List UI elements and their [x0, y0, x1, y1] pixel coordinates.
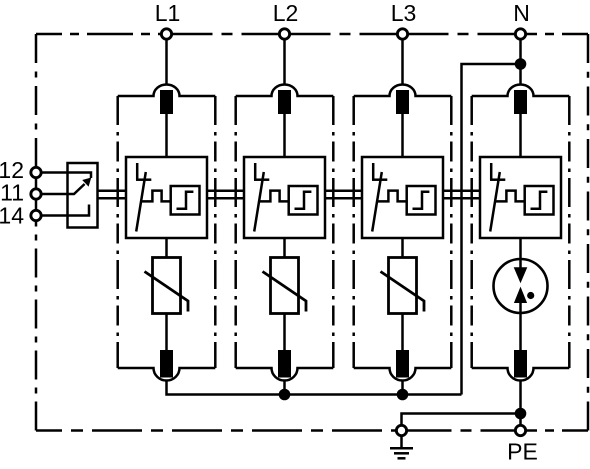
ground symbol — [390, 436, 413, 459]
wire terminal L2 to disconnector — [283, 39, 286, 85]
wire varistor L3 to bottom disconnector — [401, 314, 404, 351]
wire ground terminal to PE wire — [402, 414, 521, 426]
wire varistor L2 to bottom disconnector — [283, 314, 286, 351]
svg-text:L2: L2 — [273, 0, 299, 26]
wire L1 bottom to varistor bus — [167, 381, 462, 395]
bus link segment 1 (double line) — [98, 191, 127, 199]
bottom disconnector L3 — [396, 350, 409, 378]
junction N top — [515, 58, 527, 70]
terminal ground — [396, 425, 406, 435]
module L1 enclosure outline — [118, 85, 216, 381]
disconnection device with monitoring, path L1 — [126, 157, 207, 238]
junction L2 on varistor bus — [279, 389, 291, 401]
wire varistor L1 to bottom disconnector — [165, 314, 168, 351]
svg-text:PE: PE — [507, 439, 538, 465]
varistor L1 — [145, 258, 189, 314]
wire switch box to varistor L3 — [401, 238, 404, 258]
varistor L3 — [381, 258, 425, 314]
spark gap N-PE (gas discharge) — [494, 259, 548, 313]
terminal 14 — [31, 210, 41, 220]
thermal disconnector L2 (top) — [278, 90, 291, 114]
module L3 enclosure outline — [354, 85, 452, 381]
terminal L2 — [279, 29, 289, 39]
terminal PE — [515, 425, 525, 435]
wire N bottom to PE terminal — [519, 381, 522, 426]
thermal disconnector L3 (top) — [396, 90, 409, 114]
terminal N — [515, 29, 525, 39]
module L2 enclosure outline — [236, 85, 334, 381]
varistor L2 — [263, 258, 307, 314]
remote signalling changeover contact FM — [41, 163, 97, 228]
wire disconnector to switch box L1 — [165, 114, 168, 157]
bottom disconnector L1 — [160, 350, 173, 378]
wire terminal L1 to disconnector — [165, 39, 168, 85]
enclosure border (dash-dot frame) — [36, 34, 588, 431]
wire switch box to spark gap N-PE — [519, 238, 522, 259]
thermal disconnector L1 (top) — [160, 90, 173, 114]
thermal disconnector N (top) — [514, 90, 527, 114]
terminal 11 — [31, 189, 41, 199]
wire L2 bottom — [283, 381, 286, 395]
wire disconnector to switch box N — [519, 114, 522, 157]
wire terminal L3 to disconnector — [401, 39, 404, 85]
disconnection device with monitoring, path L3 — [362, 157, 443, 238]
wire L3 bottom — [401, 381, 404, 395]
wire spark gap to bottom disconnector N — [519, 313, 522, 350]
bus link segment 2 (double line) — [207, 191, 244, 199]
wire N junction to varistor bus — [462, 64, 516, 395]
wire disconnector to switch box L3 — [401, 114, 404, 157]
terminal 12 — [31, 167, 41, 177]
bus link segment 3 (double line) — [325, 191, 362, 199]
disconnection device with monitoring, path N — [480, 157, 561, 238]
module N enclosure outline — [472, 85, 570, 381]
svg-text:L3: L3 — [391, 0, 417, 26]
wire switch box to varistor L1 — [165, 238, 168, 258]
svg-text:14: 14 — [0, 202, 24, 228]
wire terminal N to disconnector — [519, 39, 522, 85]
junction L3 on varistor bus — [397, 389, 409, 401]
bottom disconnector N — [514, 350, 527, 378]
wire switch box to varistor L2 — [283, 238, 286, 258]
bottom disconnector L2 — [278, 350, 291, 378]
wire disconnector to switch box L2 — [283, 114, 286, 157]
bus link segment 4 (double line) — [443, 191, 480, 199]
terminal L1 — [161, 29, 171, 39]
junction N-PE bottom — [515, 408, 527, 420]
disconnection device with monitoring, path L2 — [244, 157, 325, 238]
terminal L3 — [397, 29, 407, 39]
svg-text:N: N — [513, 0, 530, 26]
svg-text:L1: L1 — [155, 0, 181, 26]
